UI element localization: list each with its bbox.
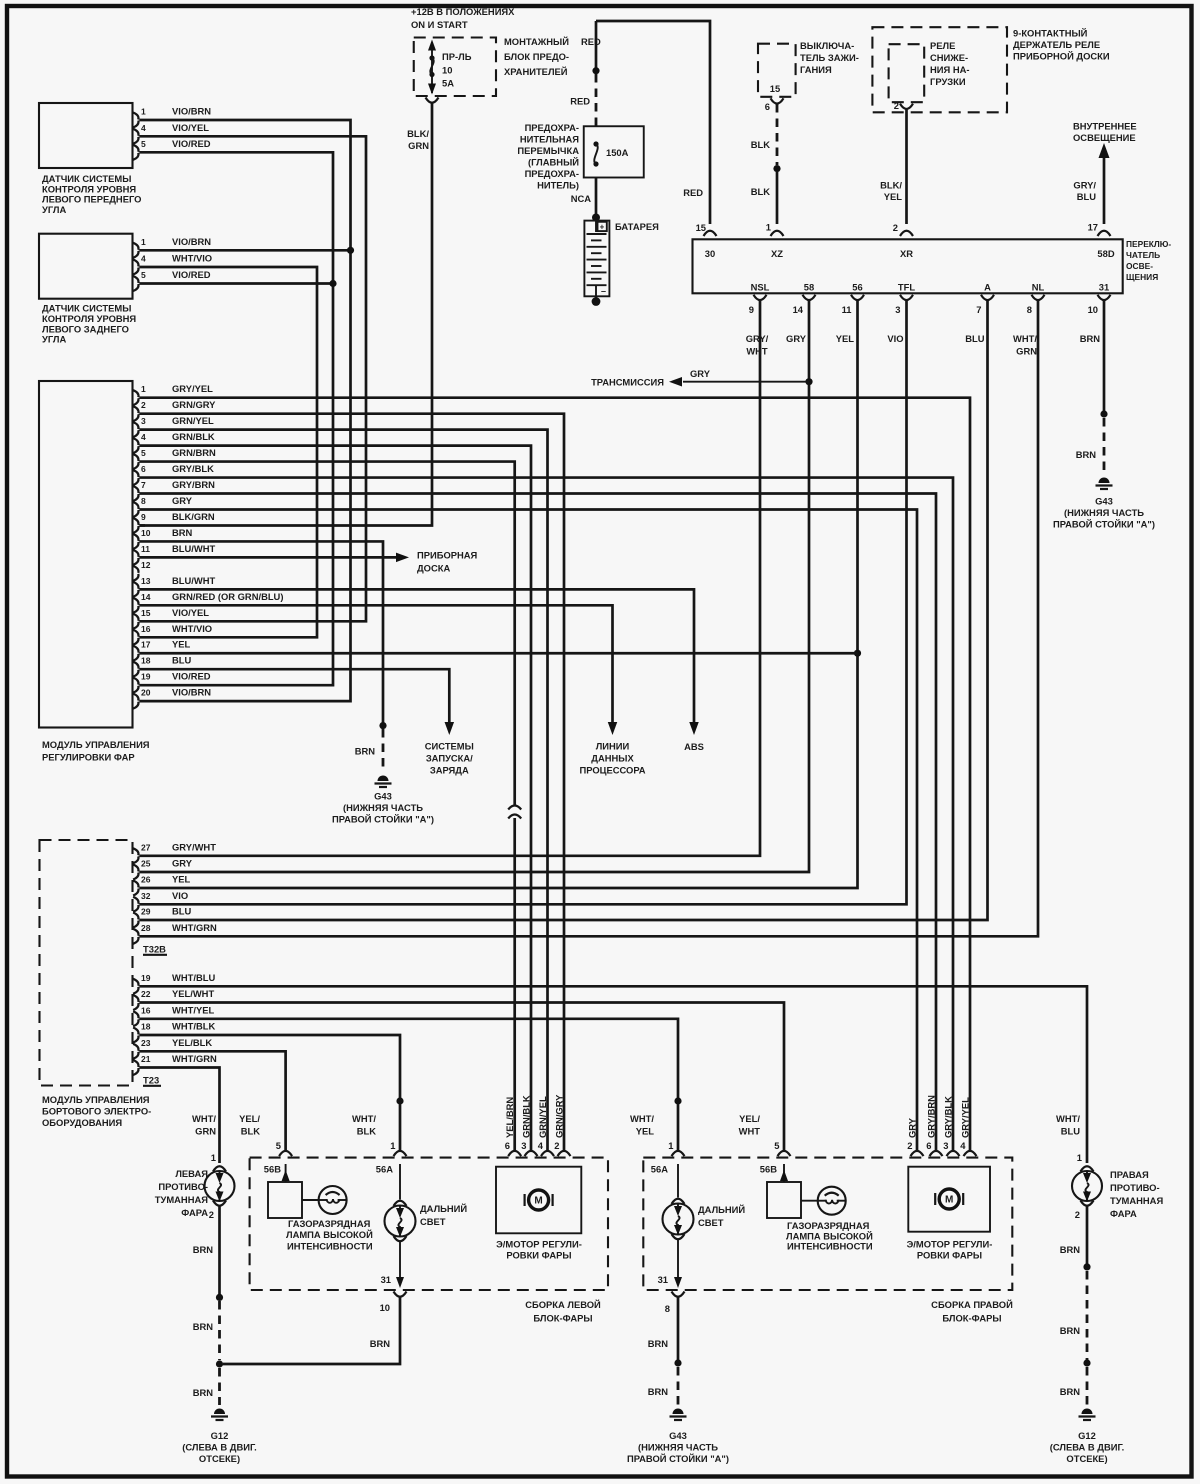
node BRN right fog splice 2 [1083, 1359, 1090, 1366]
svg-text:GRN/BRN: GRN/BRN [172, 447, 216, 458]
svg-text:ПРАВОЙ СТОЙКИ "А"): ПРАВОЙ СТОЙКИ "А") [332, 814, 434, 825]
module1 pin 3 [133, 422, 138, 429]
svg-text:ПРОТИВО-: ПРОТИВО- [1110, 1182, 1160, 1193]
wire YEL module1 pin17 to 56 bus [140, 652, 858, 655]
right HID lamp ГАЗОРАЗРЯДНАЯ ЛАМПА [818, 1187, 846, 1215]
svg-text:9: 9 [141, 512, 146, 522]
svg-text:15: 15 [141, 608, 151, 618]
svg-text:НИТЕЛЬНАЯ: НИТЕЛЬНАЯ [520, 134, 579, 145]
connector at switch pin 1 [771, 231, 784, 236]
svg-text:GRY/YEL: GRY/YEL [172, 383, 213, 394]
wire RED battery feed solid [595, 21, 598, 71]
svg-text:+12В В ПОЛОЖЕНИЯХ: +12В В ПОЛОЖЕНИЯХ [411, 6, 515, 17]
svg-text:ИНТЕНСИВНОСТИ: ИНТЕНСИВНОСТИ [287, 1241, 373, 1252]
wire BRN 31 bus to ground G43 [1103, 300, 1106, 414]
svg-text:ЛЕВАЯ: ЛЕВАЯ [175, 1168, 208, 1179]
module2 pin 23 [133, 1044, 138, 1051]
svg-text:GRN/BLK: GRN/BLK [172, 431, 215, 442]
svg-text:XZ: XZ [771, 248, 783, 259]
module1 pin 5 [133, 454, 138, 461]
svg-text:WHT: WHT [739, 1126, 761, 1137]
wire YEL/BLK module2 pin23 to left HID 56B [140, 1051, 286, 1151]
svg-text:YEL/WHT: YEL/WHT [172, 988, 214, 999]
svg-text:СБОРКА ЛЕВОЙ: СБОРКА ЛЕВОЙ [525, 1299, 601, 1310]
svg-text:VIO/BRN: VIO/BRN [172, 687, 211, 698]
left box connector pin 2 [558, 1151, 571, 1156]
wire GRY module1 pin8 to right motor pin 2 [140, 509, 918, 1151]
svg-text:КОНТРОЛЯ УРОВНЯ: КОНТРОЛЯ УРОВНЯ [42, 183, 136, 194]
svg-text:МОДУЛЬ УПРАВЛЕНИЯ: МОДУЛЬ УПРАВЛЕНИЯ [42, 1094, 150, 1105]
svg-text:15: 15 [696, 222, 706, 233]
svg-text:15: 15 [770, 83, 780, 94]
svg-text:BRN: BRN [1080, 333, 1101, 344]
wire VIO TFL bus to module2 pin 32 [140, 300, 907, 904]
left lamp lead to pin 31 [399, 1242, 401, 1284]
svg-text:56: 56 [852, 282, 862, 293]
svg-text:СВЕТ: СВЕТ [420, 1216, 446, 1227]
svg-text:30: 30 [705, 248, 715, 259]
wire GRY/BLK module1 pin6 to right motor pin 3 [140, 478, 954, 1151]
svg-text:WHT/: WHT/ [1056, 1113, 1080, 1124]
svg-text:ДАЛЬНИЙ: ДАЛЬНИЙ [420, 1203, 467, 1214]
svg-text:BLK: BLK [751, 139, 770, 150]
wire BRN dashed right headlight [677, 1367, 680, 1405]
svg-text:ДОСКА: ДОСКА [417, 563, 450, 574]
wire GRN/BLK module1 pin4 to left motor pin 3 [140, 446, 532, 1151]
svg-text:32: 32 [141, 891, 151, 901]
svg-text:5: 5 [141, 270, 146, 280]
svg-text:ОТСЕКЕ): ОТСЕКЕ) [1066, 1453, 1107, 1464]
svg-text:GRY/YEL: GRY/YEL [959, 1097, 970, 1138]
svg-text:YEL: YEL [172, 874, 191, 885]
left box connector pin 1 WHT/BLK [394, 1151, 407, 1156]
svg-text:3: 3 [943, 1140, 948, 1151]
svg-text:ТРАНСМИССИЯ: ТРАНСМИССИЯ [591, 377, 664, 388]
svg-text:GRN: GRN [195, 1126, 216, 1137]
svg-text:ПРАВОЙ СТОЙКИ "А"): ПРАВОЙ СТОЙКИ "А") [1053, 519, 1155, 530]
svg-text:7: 7 [976, 304, 981, 315]
svg-text:YEL: YEL [172, 639, 191, 650]
svg-text:1: 1 [141, 107, 146, 117]
module2 pin 19 [133, 979, 138, 986]
svg-text:GRY: GRY [172, 858, 193, 869]
svg-text:WHT/VIO: WHT/VIO [172, 623, 212, 634]
battery БАТАРЕЯ [584, 221, 609, 297]
right fog lamp ПРАВАЯ ПРОТИВОТУМАННАЯ ФАРА [1081, 1166, 1094, 1171]
svg-text:BRN: BRN [193, 1321, 214, 1332]
svg-text:НИЯ НА-: НИЯ НА- [930, 64, 970, 75]
svg-text:BLK: BLK [241, 1126, 260, 1137]
connector switch bottom pin 8 [1032, 295, 1045, 300]
svg-text:КОНТРОЛЯ УРОВНЯ: КОНТРОЛЯ УРОВНЯ [42, 313, 136, 324]
node BRN right fog splice 1 [1083, 1263, 1090, 1270]
svg-text:BRN: BRN [193, 1244, 214, 1255]
wire BLK/YEL relay to switch pin 2 [905, 108, 908, 224]
wire BLK/GRN module1 pin9 stub [140, 524, 146, 527]
svg-text:(НИЖНЯЯ ЧАСТЬ: (НИЖНЯЯ ЧАСТЬ [1064, 507, 1144, 518]
module2 pin 25 [133, 865, 138, 872]
svg-text:20: 20 [141, 688, 151, 698]
svg-text:56B: 56B [264, 1164, 281, 1175]
svg-text:ПРАВОЙ СТОЙКИ "А"): ПРАВОЙ СТОЙКИ "А") [627, 1453, 729, 1464]
wire GRY 58 bus to module2 pin 25 [140, 300, 810, 872]
svg-text:31: 31 [1099, 282, 1109, 293]
svg-text:YEL: YEL [884, 191, 903, 202]
svg-text:BLK: BLK [357, 1126, 376, 1137]
svg-text:НИТЕЛЬ): НИТЕЛЬ) [537, 180, 579, 191]
svg-text:ВНУТРЕННЕЕ: ВНУТРЕННЕЕ [1073, 121, 1137, 132]
svg-text:GRN/GRY: GRN/GRY [172, 399, 216, 410]
module1 pin 1 [133, 390, 138, 397]
svg-text:YEL: YEL [836, 333, 855, 344]
svg-text:WHT: WHT [746, 346, 768, 357]
wire WHT/BLU module2 pin19 to right fog lamp [140, 986, 1088, 1163]
svg-text:GRN/YEL: GRN/YEL [172, 415, 214, 426]
module1 pin 18 [133, 662, 138, 669]
svg-text:14: 14 [793, 304, 804, 315]
splice node BLK [773, 165, 780, 172]
left HID lamp link [302, 1199, 319, 1201]
sensor1 pin 5 [133, 145, 138, 152]
svg-text:4: 4 [141, 254, 146, 264]
svg-text:4: 4 [960, 1140, 966, 1151]
svg-text:YEL/BRN: YEL/BRN [504, 1097, 515, 1138]
connector switch bottom pin 11 [851, 295, 864, 300]
svg-text:58D: 58D [1097, 248, 1114, 259]
svg-text:GRY/BRN: GRY/BRN [925, 1095, 936, 1138]
svg-text:ПРЕДОХРА-: ПРЕДОХРА- [525, 168, 579, 179]
main fuse jumper box ПРЕДОХРАНИТЕЛЬНАЯ ПЕРЕМЫЧКА [584, 126, 644, 177]
svg-text:WHT/GRN: WHT/GRN [172, 922, 217, 933]
svg-text:BLU: BLU [172, 655, 191, 666]
svg-text:БОРТОВОГО ЭЛЕКТРО-: БОРТОВОГО ЭЛЕКТРО- [42, 1106, 151, 1117]
svg-text:56A: 56A [651, 1164, 668, 1175]
wire WHT/YEL lower [677, 1104, 680, 1151]
left box bottom connector pin 10 [394, 1292, 407, 1297]
wire BRN dashed right fog lower [1086, 1367, 1089, 1405]
svg-text:ПРИБОРНОЙ ДОСКИ: ПРИБОРНОЙ ДОСКИ [1013, 51, 1110, 62]
svg-text:ТЕЛЬ ЗАЖИ-: ТЕЛЬ ЗАЖИ- [800, 52, 859, 63]
svg-text:ДЕРЖАТЕЛЬ РЕЛЕ: ДЕРЖАТЕЛЬ РЕЛЕ [1013, 39, 1100, 50]
right headlight assembly box СБОРКА ПРАВОЙ БЛОК-ФАРЫ [643, 1158, 1012, 1290]
svg-text:23: 23 [141, 1038, 151, 1048]
svg-text:RED: RED [581, 36, 601, 47]
svg-text:3: 3 [895, 304, 900, 315]
svg-text:5: 5 [276, 1140, 281, 1151]
svg-text:WHT/BLU: WHT/BLU [172, 972, 215, 983]
svg-text:СБОРКА ПРАВОЙ: СБОРКА ПРАВОЙ [931, 1299, 1013, 1310]
wire WHT/VIO sensor2 to module1 pin 16 [140, 267, 318, 637]
module МОДУЛЬ УПРАВЛЕНИЯ РЕГУЛИРОВКИ ФАР [39, 381, 133, 728]
node VIO/RED junction [329, 280, 336, 287]
svg-text:БЛОК-ФАРЫ: БЛОК-ФАРЫ [533, 1313, 592, 1324]
right box connector pin 4 [964, 1151, 977, 1156]
svg-text:BRN: BRN [355, 746, 376, 757]
fuse ПР-ЛЬ 10 5А dashed box [414, 38, 496, 97]
svg-text:5А: 5А [442, 78, 454, 89]
svg-text:BRN: BRN [648, 1386, 669, 1397]
svg-text:GRN: GRN [1016, 346, 1037, 357]
svg-text:WHT/YEL: WHT/YEL [172, 1004, 214, 1015]
wire GRY/YEL module1 pin1 to right motor pin 4 [140, 398, 971, 1151]
sensor ДАТЧИК СИСТЕМЫ КОНТРОЛЯ УРОВНЯ ЛЕВОГО ЗАДНЕГО УГЛА [39, 234, 133, 299]
node GRY transmission tap [805, 378, 812, 385]
sensor1 pin 1 [133, 113, 138, 120]
svg-text:M: M [534, 1196, 542, 1207]
wire WHT/GRN module2 pin21 to left fog lamp [140, 1068, 220, 1164]
svg-text:YEL/: YEL/ [739, 1113, 760, 1124]
wire WHT/GRN NL bus to module2 pin 28 [140, 300, 1039, 936]
svg-text:РОВКИ ФАРЫ: РОВКИ ФАРЫ [917, 1250, 982, 1261]
svg-text:ОСВЕЩЕНИЕ: ОСВЕЩЕНИЕ [1073, 132, 1136, 143]
left motor Э/МОТОР РЕГУЛИРОВКИ ФАРЫ [529, 1190, 549, 1210]
svg-text:Э/МОТОР РЕГУЛИ-: Э/МОТОР РЕГУЛИ- [907, 1239, 993, 1250]
module1 pin 10 [133, 534, 138, 541]
wire BRN dashed right fog mid [1086, 1271, 1089, 1360]
wire WHT/BLK module2 pin18 to left high beam [140, 1035, 401, 1098]
module1 pin 6 [133, 470, 138, 477]
module1 pin 20 [133, 694, 138, 701]
svg-text:WHT/: WHT/ [192, 1113, 216, 1124]
svg-text:G43: G43 [374, 791, 392, 802]
svg-text:ПЕРЕМЫЧКА: ПЕРЕМЫЧКА [517, 145, 579, 156]
svg-text:16: 16 [141, 1005, 151, 1015]
svg-text:ПЕРЕКЛЮ-: ПЕРЕКЛЮ- [1126, 239, 1171, 249]
ground G43 bottom [673, 1409, 684, 1415]
sensor ДАТЧИК СИСТЕМЫ КОНТРОЛЯ УРОВНЯ ЛЕВОГО ПЕРЕДНЕГО УГЛА [39, 103, 133, 168]
svg-text:BLU: BLU [1077, 191, 1096, 202]
svg-text:2: 2 [907, 1140, 912, 1151]
svg-text:NCA: NCA [571, 193, 592, 204]
svg-text:ПРОЦЕССОРА: ПРОЦЕССОРА [579, 765, 645, 776]
svg-text:T23: T23 [143, 1075, 159, 1086]
svg-text:Э/МОТОР РЕГУЛИ-: Э/МОТОР РЕГУЛИ- [496, 1239, 582, 1250]
svg-text:ФАРА: ФАРА [1110, 1208, 1137, 1219]
svg-text:(НИЖНЯЯ ЧАСТЬ: (НИЖНЯЯ ЧАСТЬ [638, 1442, 718, 1453]
svg-text:(ГЛАВНЫЙ: (ГЛАВНЫЙ [528, 157, 579, 168]
svg-text:17: 17 [1088, 222, 1098, 233]
svg-text:ПРАВАЯ: ПРАВАЯ [1110, 1169, 1149, 1180]
module1 pin 2 [133, 406, 138, 413]
svg-text:VIO/BRN: VIO/BRN [172, 236, 211, 247]
svg-text:TFL: TFL [898, 282, 915, 293]
wire BLU/WHT module1 pin13 to ABS [140, 589, 695, 722]
relay РЕЛЕ СНИЖЕНИЯ НАГРУЗКИ inner box [889, 44, 925, 102]
svg-text:21: 21 [141, 1054, 151, 1064]
wire GRN/YEL module1 pin3 to left motor pin 4 [140, 430, 548, 1151]
connector below ignition switch [771, 98, 784, 103]
right motor box [908, 1167, 990, 1232]
svg-text:(НИЖНЯЯ ЧАСТЬ: (НИЖНЯЯ ЧАСТЬ [343, 802, 423, 813]
svg-text:+: + [600, 223, 605, 232]
wire YEL/WHT module2 pin22 to right HID 56B [140, 1003, 785, 1152]
module1 pin 15 [133, 614, 138, 621]
left box connector pin 6 [508, 1151, 521, 1156]
svg-text:10: 10 [380, 1302, 390, 1313]
svg-text:ПРИБОРНАЯ: ПРИБОРНАЯ [417, 550, 478, 561]
svg-text:GRN/BLK: GRN/BLK [520, 1095, 531, 1138]
light switch ПЕРЕКЛЮЧАТЕЛЬ ОСВЕЩЕНИЯ [693, 239, 1123, 293]
svg-text:ЛИНИИ: ЛИНИИ [596, 741, 630, 752]
wire BRN left fog to ground [218, 1206, 221, 1295]
wire BLU A bus to module2 pin 29 [140, 300, 988, 920]
right box connector pin 6 [930, 1151, 943, 1156]
right box connector pin 5 YEL/WHT [778, 1151, 791, 1156]
svg-text:27: 27 [141, 842, 151, 852]
svg-text:1: 1 [766, 222, 771, 233]
svg-text:16: 16 [141, 624, 151, 634]
svg-text:BRN: BRN [648, 1338, 669, 1349]
svg-text:WHT/: WHT/ [1013, 333, 1037, 344]
right HID lamp link [801, 1200, 818, 1202]
svg-text:BLU/WHT: BLU/WHT [172, 575, 215, 586]
svg-text:БЛОК-ФАРЫ: БЛОК-ФАРЫ [942, 1313, 1001, 1324]
module1 pin 16 [133, 630, 138, 637]
right box connector pin 2 [911, 1151, 924, 1156]
svg-text:XR: XR [900, 248, 913, 259]
module1 pin 9 [133, 518, 138, 525]
svg-text:ФАРА: ФАРА [181, 1207, 208, 1218]
svg-text:6: 6 [765, 101, 770, 112]
svg-text:БЛОК ПРЕДО-: БЛОК ПРЕДО- [504, 51, 569, 62]
connector switch bottom pin 7 [981, 295, 994, 300]
svg-text:29: 29 [141, 907, 151, 917]
svg-text:17: 17 [141, 640, 151, 650]
svg-text:ДАЛЬНИЙ: ДАЛЬНИЙ [698, 1204, 745, 1215]
module1 pin 14 [133, 598, 138, 605]
svg-text:12: 12 [141, 560, 151, 570]
svg-text:8: 8 [665, 1303, 670, 1314]
svg-text:ХРАНИТЕЛЕЙ: ХРАНИТЕЛЕЙ [504, 66, 568, 77]
wire BRN dashed pin10 [382, 729, 385, 772]
module2 pin 29 [133, 913, 138, 920]
connector at switch pin 15 [704, 231, 717, 236]
svg-text:6: 6 [141, 464, 146, 474]
svg-text:2: 2 [554, 1140, 559, 1151]
svg-text:ВЫКЛЮЧА-: ВЫКЛЮЧА- [800, 40, 854, 51]
connector at switch pin 2 [900, 231, 913, 236]
svg-text:G12: G12 [211, 1430, 229, 1441]
wire BRN right fog to ground [1086, 1206, 1089, 1264]
svg-text:10: 10 [442, 65, 452, 76]
wire WHT/YEL module2 pin16 to right high beam [140, 1019, 679, 1098]
svg-text:ОТСЕКЕ): ОТСЕКЕ) [199, 1453, 240, 1464]
svg-text:5: 5 [141, 448, 146, 458]
svg-text:BRN: BRN [370, 1338, 391, 1349]
svg-text:ЧАТЕЛЬ: ЧАТЕЛЬ [1126, 250, 1160, 260]
svg-text:BRN: BRN [1060, 1325, 1081, 1336]
svg-text:1: 1 [141, 237, 146, 247]
wire GRY/WHT NSL bus to module2 pin 27 [140, 300, 761, 856]
svg-text:18: 18 [141, 1022, 151, 1032]
svg-text:GRY: GRY [786, 333, 807, 344]
right HID igniter box [767, 1182, 801, 1218]
svg-text:BLU: BLU [172, 906, 191, 917]
wire BRN dashed left fog lower [218, 1368, 221, 1405]
svg-text:5: 5 [141, 139, 146, 149]
svg-text:13: 13 [141, 576, 151, 586]
svg-text:BLU/WHT: BLU/WHT [172, 543, 215, 554]
node battery positive [592, 214, 600, 222]
svg-text:VIO: VIO [172, 890, 188, 901]
module МОДУЛЬ УПРАВЛЕНИЯ БОРТОВОГО ЭЛЕКТРООБОРУДОВАНИЯ [40, 840, 133, 1086]
left box connector pin 5 YEL/BLK [279, 1151, 292, 1156]
left fog lamp ЛЕВАЯ ПРОТИВОТУМАННАЯ ФАРА [213, 1166, 226, 1171]
svg-text:31: 31 [658, 1274, 668, 1285]
wire NCA jumper to battery [595, 178, 598, 217]
svg-text:8: 8 [141, 496, 146, 506]
svg-text:28: 28 [141, 923, 151, 933]
svg-text:МОНТАЖНЫЙ: МОНТАЖНЫЙ [504, 36, 569, 47]
svg-text:150A: 150A [606, 147, 629, 158]
inline connector on YEL/BRN wire [508, 806, 521, 810]
svg-text:VIO: VIO [887, 333, 903, 344]
svg-text:BLU: BLU [965, 333, 984, 344]
svg-text:ГРУЗКИ: ГРУЗКИ [930, 76, 966, 87]
svg-text:ABS: ABS [684, 741, 704, 752]
svg-text:6: 6 [505, 1140, 510, 1151]
wire RED top feed to light switch pin 15 [596, 21, 710, 224]
sensor1 pin 4 [133, 129, 138, 136]
svg-text:9-КОНТАКТНЫЙ: 9-КОНТАКТНЫЙ [1013, 28, 1088, 39]
svg-text:YEL/BLK: YEL/BLK [172, 1037, 212, 1048]
module2 pin 18 [133, 1028, 138, 1035]
svg-text:3: 3 [141, 416, 146, 426]
module2 pin 32 [133, 897, 138, 904]
svg-text:GRY/: GRY/ [746, 333, 769, 344]
wire BLK to switch pin 1 [776, 171, 779, 224]
svg-text:1: 1 [668, 1140, 673, 1151]
relay holder outer dashed box [872, 27, 1007, 112]
left motor box [496, 1167, 581, 1234]
svg-text:4: 4 [538, 1140, 544, 1151]
svg-text:GRY/WHT: GRY/WHT [172, 841, 216, 852]
ground G12 left [214, 1409, 225, 1415]
ground G12 right [1082, 1409, 1093, 1415]
module1 pin 12 [133, 566, 138, 573]
svg-text:РОВКИ ФАРЫ: РОВКИ ФАРЫ [506, 1250, 571, 1261]
module1 pin 8 [133, 502, 138, 509]
fuse ПР-ЛЬ element [431, 42, 433, 93]
svg-text:2: 2 [894, 100, 899, 111]
right lamp lead to pin 31 [677, 1239, 679, 1284]
svg-text:ТУМАННАЯ: ТУМАННАЯ [1110, 1195, 1163, 1206]
svg-text:2: 2 [141, 400, 146, 410]
svg-text:5: 5 [774, 1140, 779, 1151]
node VIO/BRN junction [347, 247, 354, 254]
wire BLK/GRN fuse to module pin 9 [140, 103, 433, 526]
svg-text:BRN: BRN [1076, 449, 1097, 460]
connector switch bottom pin 3 [900, 295, 913, 300]
wire VIO/BRN sensor2 to node [140, 249, 351, 252]
svg-text:RED: RED [683, 187, 703, 198]
svg-text:RED: RED [570, 96, 590, 107]
svg-text:WHT/: WHT/ [352, 1113, 376, 1124]
svg-text:M: M [945, 1195, 953, 1206]
svg-text:1: 1 [211, 1152, 216, 1163]
svg-text:A: A [984, 282, 991, 293]
ground G43 right [1099, 478, 1110, 484]
svg-text:7: 7 [141, 480, 146, 490]
node BRN right headlight splice [674, 1359, 681, 1366]
node splice WHT/BLK [396, 1097, 403, 1104]
svg-text:BRN: BRN [193, 1387, 214, 1398]
right box connector pin 3 [947, 1151, 960, 1156]
svg-text:2: 2 [209, 1209, 214, 1220]
svg-text:СНИЖЕ-: СНИЖЕ- [930, 52, 968, 63]
svg-text:BLK: BLK [751, 186, 770, 197]
node YEL junction with module1 pin 17 [854, 650, 861, 657]
